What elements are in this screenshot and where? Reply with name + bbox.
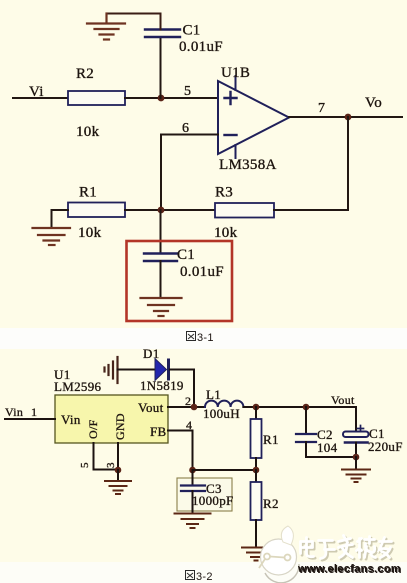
op-amp - input symbol	[225, 134, 237, 136]
wire D1 cathode to Vout node	[170, 370, 194, 408]
svg-text:LM2596: LM2596	[54, 379, 101, 394]
svg-text:104: 104	[317, 440, 338, 455]
inductor L1	[205, 401, 243, 407]
svg-text:0.01uF: 0.01uF	[179, 39, 223, 55]
capacitor C3	[181, 486, 205, 492]
ground (under C1)	[342, 470, 370, 483]
wire R1 to node	[125, 209, 215, 211]
feedback wire down	[347, 117, 349, 210]
tu glyph (figure)	[186, 571, 195, 580]
wire R2 to ground	[255, 520, 257, 546]
node common ground junction	[353, 454, 360, 461]
svg-text:GND: GND	[113, 413, 127, 440]
svg-text:D1: D1	[143, 346, 160, 361]
svg-text:3-1: 3-1	[197, 332, 214, 344]
node D1/Vout junction	[191, 404, 198, 411]
op-amp + input symbol	[225, 92, 237, 104]
svg-text:L1: L1	[206, 387, 221, 402]
wire Vi lead	[13, 97, 68, 99]
white band between figures	[0, 328, 407, 349]
wire Vout corner down to C1	[355, 407, 357, 431]
svg-text:3: 3	[105, 462, 117, 468]
node junction R1/R3/C1	[158, 207, 165, 214]
svg-text:Vout: Vout	[138, 400, 164, 415]
figure label 3-2	[186, 571, 213, 583]
diode D1	[155, 359, 167, 381]
wire L1 to Vout corner	[243, 406, 356, 408]
wire R3 to feedback	[274, 209, 348, 211]
watermark logo circle	[259, 526, 299, 583]
ground (left of D1, pointing left)	[105, 357, 118, 383]
ground (under IC)	[105, 481, 131, 494]
svg-text:FB: FB	[150, 424, 167, 439]
ground (under C3)	[175, 514, 211, 529]
wire FB node to R1/R2	[193, 469, 257, 471]
svg-text:10k: 10k	[78, 225, 102, 241]
op-amp power stub bottom	[235, 145, 237, 158]
svg-text:Vo: Vo	[365, 95, 382, 111]
watermark text dianzifashaoyou (5 glyph approximations)	[301, 536, 394, 561]
capacitor C1 (in red box)	[144, 254, 177, 262]
op-amp U1B triangle	[218, 81, 289, 154]
capacitor C2	[296, 434, 316, 442]
svg-text:R3: R3	[215, 185, 233, 201]
ground (under R2)	[242, 548, 270, 561]
svg-text:Vin: Vin	[61, 412, 81, 427]
svg-text:C1: C1	[177, 247, 195, 263]
output wire	[289, 116, 402, 118]
wire C1 to ground	[355, 443, 357, 458]
wire to ground	[117, 470, 119, 480]
svg-text:R1: R1	[79, 185, 97, 201]
wire to ground	[355, 457, 357, 469]
diode D1 cathode bar	[167, 359, 170, 381]
svg-text:U1B: U1B	[221, 65, 250, 81]
svg-text:4: 4	[186, 418, 192, 432]
resistor R2 (vertical)	[255, 470, 257, 482]
svg-text:Vout: Vout	[331, 393, 355, 407]
IC bottom pin 3 stub	[117, 443, 119, 470]
op-amp power stub top	[235, 76, 237, 90]
white band bottom left	[0, 562, 407, 583]
svg-text:O/F: O/F	[86, 419, 100, 439]
svg-text:10k: 10k	[76, 124, 100, 140]
svg-text:R1: R1	[263, 432, 279, 447]
wire R1 left to ground	[52, 210, 69, 227]
svg-text:C1: C1	[183, 23, 201, 39]
wire R2 to op-amp	[125, 97, 216, 99]
wire node up to C1	[160, 37, 162, 98]
wire ground to D1 anode	[118, 369, 156, 371]
resistor R1	[68, 203, 125, 218]
IC U1 LM2596 body	[55, 395, 168, 443]
node junction at R2/C1/pin5	[158, 95, 165, 102]
node R1/R2/FB	[253, 467, 260, 474]
node pins junction	[115, 467, 122, 474]
wire Vout pin to L1	[168, 406, 205, 408]
svg-text:1000pF: 1000pF	[192, 493, 234, 508]
yellow highlight box around C3	[177, 478, 232, 511]
wire Vin input	[5, 418, 55, 420]
svg-text:2: 2	[185, 394, 191, 408]
wire C1 to ground	[160, 261, 162, 297]
wire node down to C1 (in red box)	[160, 210, 162, 253]
resistor R1 (vertical)	[255, 407, 257, 419]
ground (top left)	[87, 14, 125, 40]
svg-text:3-2: 3-2	[196, 571, 213, 583]
capacitor C1 electrolytic + plate	[343, 432, 369, 438]
node at output	[345, 114, 352, 121]
resistor R2	[68, 91, 125, 105]
svg-text:Vi: Vi	[29, 84, 44, 100]
FB pin wire	[168, 431, 193, 471]
svg-text:10k: 10k	[214, 225, 238, 241]
resistor R3	[215, 203, 274, 218]
svg-text:R2: R2	[263, 496, 279, 511]
svg-text:5: 5	[184, 84, 191, 99]
svg-text:0.01uF: 0.01uF	[180, 264, 224, 280]
ground (left, under R1)	[33, 228, 71, 245]
wire C3 to ground	[192, 491, 194, 512]
capacitor C1 bottom plate	[345, 441, 368, 444]
IC bottom pin 5 stub	[94, 443, 119, 470]
tu glyph (figure)	[187, 332, 196, 341]
svg-text:LM358A: LM358A	[219, 157, 277, 173]
ground (under C1 in red box)	[141, 298, 182, 316]
figure label 3-1	[187, 332, 214, 345]
capacitor C1 (top)	[145, 30, 180, 38]
svg-text:www.elecfans.com: www.elecfans.com	[297, 563, 401, 575]
capacitor C2 branch	[305, 407, 307, 434]
minus input wire	[161, 135, 218, 211]
svg-text:Vin: Vin	[5, 405, 23, 419]
node C2 junction	[303, 404, 310, 411]
wire C2 to common	[306, 442, 356, 457]
svg-text:220uF: 220uF	[368, 439, 403, 454]
svg-text:100uH: 100uH	[203, 406, 240, 421]
svg-text:7: 7	[318, 101, 325, 116]
FB junction node	[189, 467, 196, 474]
plus sign	[358, 426, 364, 432]
svg-text:5: 5	[79, 462, 91, 468]
node L1/R1 junction	[253, 404, 260, 411]
wire C1 to ground branch	[107, 14, 161, 30]
red highlight box	[127, 241, 233, 321]
svg-text:1N5819: 1N5819	[140, 378, 184, 393]
wire R1 to node	[255, 458, 257, 470]
svg-text:1: 1	[31, 405, 37, 419]
wire through box to C3	[192, 470, 194, 486]
svg-text:R2: R2	[76, 66, 94, 82]
